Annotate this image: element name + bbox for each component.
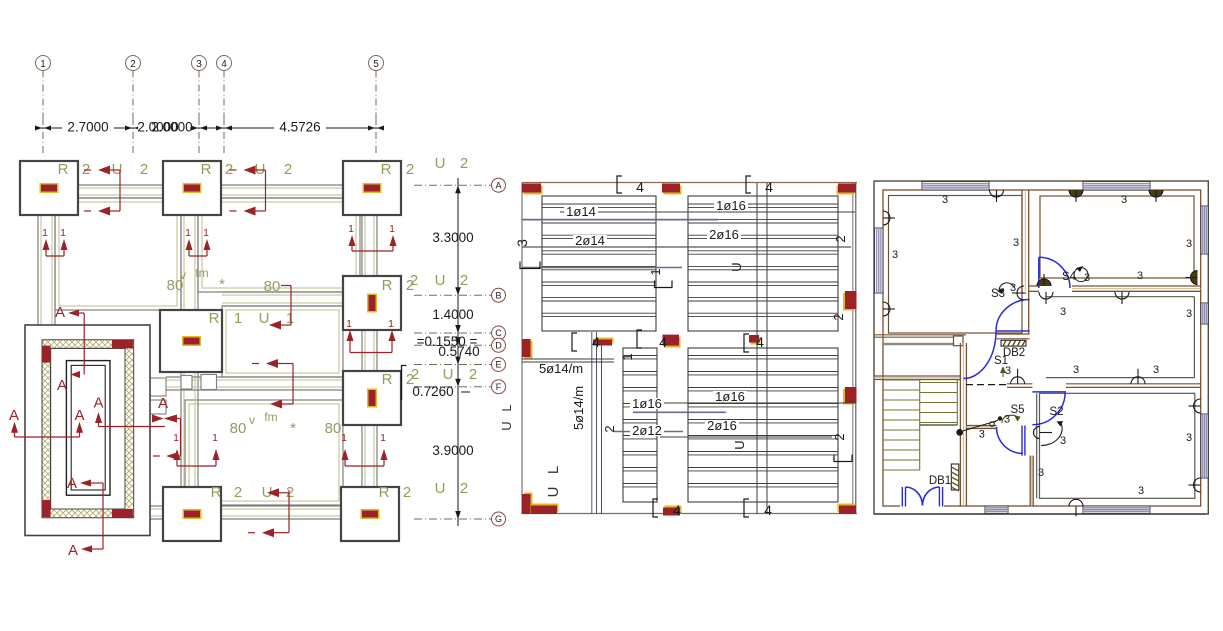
beam C6-C8 xyxy=(361,424,363,487)
svg-text:2: 2 xyxy=(403,484,411,501)
svg-text:fm: fm xyxy=(264,410,277,424)
stair flight edge xyxy=(883,469,920,471)
rebar label 1o16 bottom-left xyxy=(630,398,664,409)
level bubble E xyxy=(492,358,506,372)
door jamb xyxy=(954,336,964,346)
window bottom-2 xyxy=(1083,506,1150,514)
level line E xyxy=(414,364,491,366)
svg-text:L: L xyxy=(545,466,562,474)
U-bar hook bay2 xyxy=(244,166,256,175)
svg-text:1: 1 xyxy=(341,432,347,444)
svg-text:0.5740: 0.5740 xyxy=(438,344,479,359)
svg-text:4: 4 xyxy=(221,59,227,70)
svg-text:DB1: DB1 xyxy=(929,475,951,487)
svg-text:U: U xyxy=(499,421,514,430)
svg-text:2: 2 xyxy=(833,235,848,242)
wall stub DB2 xyxy=(997,333,1030,335)
svg-text:1: 1 xyxy=(60,227,66,239)
svg-text:U: U xyxy=(435,155,446,172)
svg-text:3: 3 xyxy=(1121,194,1127,206)
wall corridor bottom left xyxy=(1007,383,1032,385)
column C8 xyxy=(341,487,399,541)
svg-text:B: B xyxy=(495,290,501,300)
svg-text:1: 1 xyxy=(348,223,354,235)
light room1 door side xyxy=(1017,286,1024,300)
svg-text:1: 1 xyxy=(234,310,242,327)
svg-text:1.4000: 1.4000 xyxy=(432,307,473,322)
svg-text:2: 2 xyxy=(602,425,617,432)
svg-text:3: 3 xyxy=(1005,365,1011,377)
level bubble A xyxy=(492,178,506,192)
svg-text:3: 3 xyxy=(196,59,202,70)
wall hall top left xyxy=(874,334,966,336)
wall room2 bottom stub xyxy=(1029,285,1039,287)
svg-text:2: 2 xyxy=(406,161,414,178)
svg-text:3: 3 xyxy=(1013,237,1019,249)
rebar callout line 2o14 xyxy=(522,246,851,248)
U-bar hook bay1 xyxy=(98,166,110,175)
U-bar hook R1 row xyxy=(281,285,291,287)
svg-text:4.5726: 4.5726 xyxy=(279,120,320,135)
wall bath right lower xyxy=(1029,456,1031,506)
section bracket bottom 1 xyxy=(653,499,658,517)
window right-3 xyxy=(1201,414,1208,478)
svg-text:2: 2 xyxy=(460,155,468,172)
svg-text:5: 5 xyxy=(373,59,379,70)
room outline middle bay xyxy=(222,306,343,377)
rebar label 1o16 bottom-right xyxy=(713,391,747,402)
svg-text:U: U xyxy=(732,440,747,449)
svg-text:3: 3 xyxy=(1186,308,1192,320)
dashed opening line xyxy=(966,384,1007,386)
living room outline xyxy=(1046,296,1194,298)
column C7 xyxy=(163,487,221,541)
svg-text:4: 4 xyxy=(756,334,764,350)
level bubble C xyxy=(492,326,506,340)
beam C3-C4 xyxy=(361,215,363,276)
svg-text:80: 80 xyxy=(264,278,281,295)
level line A xyxy=(414,184,491,186)
window right-2 xyxy=(1201,303,1208,324)
slab bottom-mid rebar xyxy=(623,348,657,502)
svg-text:2ø16: 2ø16 xyxy=(707,418,737,433)
svg-text:A: A xyxy=(68,542,78,559)
light top wall 3 xyxy=(1149,190,1163,197)
rebar label 1o16 top xyxy=(714,200,748,211)
svg-text:1: 1 xyxy=(42,227,48,239)
column C1 row1 xyxy=(20,161,78,215)
svg-text:U: U xyxy=(443,366,454,383)
section bracket mid 2 xyxy=(637,330,642,348)
svg-text:1: 1 xyxy=(346,318,352,330)
room outline top-right bay xyxy=(198,198,360,292)
column block bottom-left-h xyxy=(533,504,559,513)
svg-text:1: 1 xyxy=(380,432,386,444)
svg-text:F: F xyxy=(496,382,502,392)
column C6 xyxy=(343,371,401,425)
DB2 box xyxy=(1001,340,1026,346)
column block top-right xyxy=(837,186,855,195)
svg-text:3: 3 xyxy=(1060,435,1066,447)
svg-text:1ø16: 1ø16 xyxy=(632,396,662,411)
svg-text:U: U xyxy=(729,262,744,271)
light left wall 1 xyxy=(883,211,890,225)
rebar label 2o16 bottom xyxy=(705,420,739,431)
column C4 xyxy=(343,276,401,330)
grid bubble 2 xyxy=(126,56,141,71)
svg-text:3: 3 xyxy=(1010,282,1016,294)
svg-text:5ø14/m: 5ø14/m xyxy=(539,361,583,376)
beam below column C2 xyxy=(180,215,182,310)
door S3 leaf xyxy=(996,330,1030,332)
light room2 wall xyxy=(1115,292,1129,299)
slab bottom-right rebar xyxy=(688,348,838,502)
svg-text:1: 1 xyxy=(173,432,179,444)
svg-text:2ø12: 2ø12 xyxy=(632,423,662,438)
dimension chain vertical line xyxy=(457,178,459,526)
stair inner well xyxy=(66,361,110,496)
svg-text:2: 2 xyxy=(831,313,846,320)
section bracket top 1 xyxy=(617,176,622,193)
level line G xyxy=(414,518,491,520)
rebar label 2o12 xyxy=(630,425,664,436)
wall room2 bottom xyxy=(1072,285,1201,287)
svg-text:3: 3 xyxy=(1084,272,1090,284)
svg-text:1: 1 xyxy=(203,227,209,239)
bottom-right room inner outline xyxy=(1040,393,1195,498)
light corridor 3 xyxy=(1131,377,1145,384)
light corridor 1 xyxy=(1039,292,1053,299)
svg-text:R: R xyxy=(211,484,222,501)
column block mid-band-1 xyxy=(595,338,614,344)
door S3 arc xyxy=(996,300,1030,332)
rebar callout line 1o16 bottom xyxy=(633,402,856,404)
svg-text:1: 1 xyxy=(212,432,218,444)
switch hall dot xyxy=(956,429,963,436)
svg-text:A: A xyxy=(495,180,501,190)
window bottom-1 xyxy=(985,506,1008,514)
svg-text:3.9000: 3.9000 xyxy=(432,443,473,458)
level line B xyxy=(414,294,491,296)
floor plan inner wall line xyxy=(883,190,1201,506)
svg-text:R: R xyxy=(58,161,69,178)
rebar label 1o14 xyxy=(564,206,598,217)
room1 outline xyxy=(889,196,1023,334)
svg-text:4: 4 xyxy=(673,502,681,518)
vertical rebar pair left xyxy=(591,332,593,514)
svg-text:1ø14: 1ø14 xyxy=(566,204,596,219)
svg-text:1: 1 xyxy=(40,59,46,70)
room2 outline xyxy=(1040,196,1194,278)
svg-text:U: U xyxy=(259,310,270,327)
svg-text:R: R xyxy=(382,371,393,388)
light bottom room xyxy=(1069,499,1083,506)
svg-text:S2: S2 xyxy=(1049,406,1063,418)
svg-text:1: 1 xyxy=(389,223,395,235)
svg-text:2: 2 xyxy=(469,366,477,383)
svg-text:3: 3 xyxy=(1153,364,1159,376)
svg-text:2.0000: 2.0000 xyxy=(151,120,192,135)
svg-text:2.7000: 2.7000 xyxy=(67,120,108,135)
joint stub 1 xyxy=(150,378,166,396)
svg-text:*: * xyxy=(219,276,225,293)
rebar callout line 2o12 xyxy=(614,431,683,433)
room outline bottom bay xyxy=(185,400,343,505)
wall stair top xyxy=(874,375,960,377)
svg-text:3: 3 xyxy=(1038,467,1044,479)
stair band red block TR xyxy=(112,340,133,349)
svg-text:U: U xyxy=(545,487,562,498)
light top wall 2 xyxy=(1069,190,1083,197)
joint stub 4 xyxy=(201,375,217,390)
column block left-mid xyxy=(524,341,533,359)
door S1 arc xyxy=(964,331,997,379)
light corridor 2 xyxy=(1011,377,1025,384)
door S2 arc xyxy=(1032,392,1065,425)
svg-text:fm: fm xyxy=(195,266,208,280)
column block bottom-left-v xyxy=(524,493,533,513)
stair outer wall xyxy=(25,325,150,536)
svg-text:1: 1 xyxy=(620,353,635,360)
svg-text:R: R xyxy=(382,277,393,294)
svg-text:2: 2 xyxy=(130,59,136,70)
svg-text:v: v xyxy=(249,413,255,427)
grid bubble 4 xyxy=(217,56,232,71)
level bubble D xyxy=(492,338,506,352)
svg-text:3: 3 xyxy=(1073,364,1079,376)
level line F xyxy=(414,386,491,388)
beam mid band xyxy=(166,376,343,378)
column block right-lower xyxy=(843,389,855,405)
svg-text:A: A xyxy=(9,407,19,424)
level bubble F xyxy=(492,380,506,394)
svg-text:5ø14/m: 5ø14/m xyxy=(571,386,586,430)
svg-text:80: 80 xyxy=(230,420,247,437)
slab panel left border xyxy=(521,183,523,515)
room outline top-left bay xyxy=(55,198,181,310)
beam R1-C7 xyxy=(180,372,182,487)
wall room1 right xyxy=(1021,190,1023,293)
window top-left xyxy=(922,182,989,191)
beam below column C1 xyxy=(37,215,39,325)
svg-text:4: 4 xyxy=(636,179,644,195)
rebar heavy line bottom xyxy=(633,411,726,413)
light S4 corner xyxy=(1037,279,1051,286)
svg-text:3: 3 xyxy=(1186,238,1192,250)
beam row1 bay2 xyxy=(221,184,343,186)
svg-text:C: C xyxy=(495,328,502,338)
svg-text:2: 2 xyxy=(140,161,148,178)
stair band red block BL xyxy=(42,500,51,517)
section bracket bottom 2 xyxy=(744,499,749,517)
svg-text:L: L xyxy=(499,404,514,411)
svg-text:2: 2 xyxy=(284,161,292,178)
level bubble B xyxy=(492,288,506,302)
dim text 2.0000 overlapped xyxy=(138,121,190,134)
beam bottom row xyxy=(150,505,343,507)
light bath wall xyxy=(1034,427,1040,439)
wall corridor bottom xyxy=(1066,383,1201,385)
light right wall 3 xyxy=(1194,478,1201,492)
column block mid-band-3 xyxy=(751,337,761,345)
light right wall 2 xyxy=(1194,399,1201,413)
grid bubble 1 xyxy=(36,56,51,71)
svg-text:A: A xyxy=(158,395,168,412)
light top wall 1 xyxy=(990,190,1004,197)
wall stair right xyxy=(959,343,961,506)
light left wall 2 xyxy=(883,302,890,316)
column block right-upper xyxy=(843,293,855,311)
stairs xyxy=(883,379,920,381)
svg-text:3: 3 xyxy=(1060,306,1066,318)
svg-text:0.7260: 0.7260 xyxy=(412,384,453,399)
svg-text:3: 3 xyxy=(892,249,898,261)
joint stub 3 xyxy=(181,376,192,390)
column C3 row1 xyxy=(343,161,401,215)
dimension line top xyxy=(36,127,383,129)
U-bar hook mid xyxy=(266,359,278,368)
svg-text:A: A xyxy=(57,377,67,394)
svg-text:3: 3 xyxy=(1004,414,1010,426)
svg-text:3: 3 xyxy=(979,429,985,441)
window right-1 xyxy=(1201,206,1208,254)
rebar label 5o14/m horizontal xyxy=(538,363,584,374)
svg-text:v: v xyxy=(180,268,186,282)
section bracket top 2 xyxy=(746,176,751,193)
svg-text:2ø16: 2ø16 xyxy=(709,227,739,242)
svg-text:1ø16: 1ø16 xyxy=(715,389,745,404)
svg-text:S5: S5 xyxy=(1010,404,1024,416)
stairwell top edge xyxy=(522,358,614,360)
vertical rebar pair right xyxy=(756,183,758,514)
svg-text:2ø14: 2ø14 xyxy=(575,233,605,248)
slab top-right rebar xyxy=(688,196,838,331)
rebar label 5o14/m vertical xyxy=(577,385,588,431)
slab top-left rebar xyxy=(542,196,656,331)
stair band red block BR xyxy=(112,509,133,518)
dim text 4.5726 xyxy=(274,121,326,134)
rebar heavy line 2o16 xyxy=(522,267,682,269)
slab panel right border xyxy=(852,183,854,515)
svg-text:R: R xyxy=(201,161,212,178)
svg-text:*: * xyxy=(290,420,296,437)
svg-text:1: 1 xyxy=(388,318,394,330)
svg-text:3: 3 xyxy=(514,239,530,247)
svg-text:2: 2 xyxy=(411,366,419,383)
svg-text:U: U xyxy=(435,272,446,289)
stair band red block TL xyxy=(42,346,51,363)
column block top-left xyxy=(524,186,543,195)
svg-text:80: 80 xyxy=(325,420,342,437)
svg-text:U: U xyxy=(435,480,446,497)
svg-text:3.3000: 3.3000 xyxy=(432,230,473,245)
section bracket mid 1 xyxy=(572,333,577,351)
svg-text:2: 2 xyxy=(410,272,418,289)
svg-text:1: 1 xyxy=(648,268,663,275)
rebar label 2o14 xyxy=(573,235,607,246)
svg-text:A: A xyxy=(67,475,77,492)
svg-text:D: D xyxy=(495,341,502,351)
svg-text:A: A xyxy=(55,304,65,321)
level line D xyxy=(414,344,491,346)
U-bar hook bottom bay xyxy=(267,488,279,497)
svg-text:R: R xyxy=(381,161,392,178)
svg-text:2: 2 xyxy=(460,480,468,497)
svg-text:E: E xyxy=(495,360,501,370)
joint stub 2 xyxy=(150,400,166,414)
svg-text:2: 2 xyxy=(234,484,242,501)
entrance double door DB1 xyxy=(901,487,903,507)
entrance opening xyxy=(900,505,944,513)
svg-text:4: 4 xyxy=(592,334,600,350)
column C2 row1 xyxy=(163,161,221,215)
svg-text:4: 4 xyxy=(765,179,773,195)
door S4 arc xyxy=(1039,257,1070,288)
slab panel top border xyxy=(522,182,857,184)
level bubble G xyxy=(492,512,506,526)
svg-text:A: A xyxy=(93,395,103,412)
column block bottom-right xyxy=(838,504,855,513)
svg-text:3: 3 xyxy=(942,194,948,206)
wall bath stub xyxy=(966,425,997,427)
svg-text:4: 4 xyxy=(764,502,772,518)
svg-text:4: 4 xyxy=(659,334,667,350)
svg-text:G: G xyxy=(495,514,502,524)
svg-text:R: R xyxy=(209,310,220,327)
svg-text:2: 2 xyxy=(460,272,468,289)
DB1 box xyxy=(951,464,959,490)
svg-text:1: 1 xyxy=(185,227,191,239)
slab panel bottom border xyxy=(522,513,857,515)
column block mid-band-2 xyxy=(664,337,681,348)
section bracket mid 3 xyxy=(744,334,749,352)
grid bubble 3 xyxy=(192,56,207,71)
svg-text:R: R xyxy=(379,484,390,501)
svg-text:3: 3 xyxy=(1137,270,1143,282)
dim text 2.7000 xyxy=(62,121,114,134)
light right wall 1 xyxy=(1191,271,1198,285)
svg-text:3: 3 xyxy=(1138,485,1144,497)
grid bubble 5 xyxy=(369,56,384,71)
svg-text:A: A xyxy=(74,407,84,424)
rebar line 2o16 bottom xyxy=(660,436,832,438)
rebar callout line 1o14 xyxy=(560,211,855,213)
svg-text:1ø16: 1ø16 xyxy=(716,198,746,213)
beam row1 bay1 xyxy=(78,184,163,186)
window left xyxy=(875,228,884,293)
column block top-mid xyxy=(664,186,682,195)
beam R1-C4 xyxy=(222,291,343,293)
level line C xyxy=(414,332,491,334)
svg-text:2: 2 xyxy=(832,433,847,440)
window top-right xyxy=(1083,182,1150,191)
floor plan outer wall xyxy=(874,181,1208,514)
rebar label 2o16 top xyxy=(707,229,741,240)
column R1 xyxy=(160,310,222,372)
rebar heavy line top xyxy=(522,219,718,221)
svg-text:3: 3 xyxy=(1186,432,1192,444)
column block bottom-mid xyxy=(665,506,682,514)
beam C4-C6 xyxy=(361,330,363,371)
door bath arc S5 xyxy=(997,427,1024,454)
